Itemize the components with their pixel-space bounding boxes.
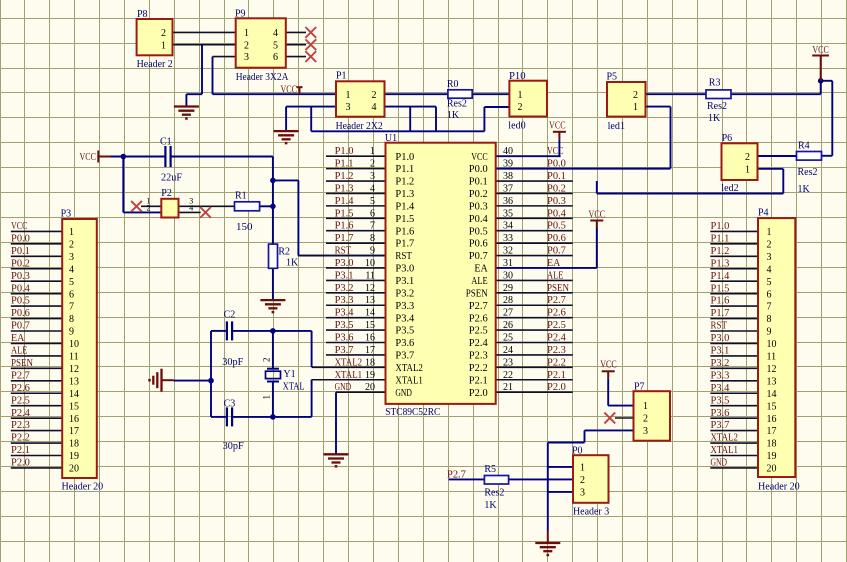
svg-text:P3.6: P3.6: [711, 408, 730, 419]
svg-text:P2.5: P2.5: [469, 326, 488, 337]
svg-text:RST: RST: [395, 251, 412, 262]
svg-text:P1.1: P1.1: [335, 159, 354, 170]
svg-text:6: 6: [69, 289, 74, 300]
svg-text:PSEN: PSEN: [11, 358, 33, 369]
svg-text:8: 8: [69, 314, 74, 325]
svg-text:P3.0: P3.0: [395, 264, 414, 275]
svg-text:P0.6: P0.6: [469, 239, 488, 250]
svg-text:P3.6: P3.6: [395, 338, 414, 349]
svg-text:1: 1: [580, 463, 585, 474]
svg-text:P0.0: P0.0: [11, 233, 30, 244]
svg-text:PSEN: PSEN: [466, 288, 488, 299]
svg-text:VCC: VCC: [281, 85, 298, 96]
svg-text:Header 20: Header 20: [758, 482, 800, 493]
svg-text:33: 33: [503, 233, 513, 244]
svg-text:P1.0: P1.0: [711, 221, 730, 232]
svg-text:22: 22: [503, 370, 513, 381]
svg-text:4: 4: [273, 28, 278, 39]
svg-text:P1.6: P1.6: [335, 221, 354, 232]
svg-text:P3.2: P3.2: [711, 358, 730, 369]
svg-text:30pF: 30pF: [223, 441, 244, 452]
svg-text:P3.5: P3.5: [711, 395, 730, 406]
svg-text:ALE: ALE: [11, 346, 28, 357]
svg-text:1: 1: [346, 90, 351, 101]
svg-text:2: 2: [161, 28, 166, 39]
svg-text:led0: led0: [508, 120, 525, 131]
svg-text:13: 13: [69, 376, 79, 387]
svg-text:37: 37: [503, 183, 513, 194]
svg-text:P2.3: P2.3: [547, 345, 566, 356]
svg-text:1K: 1K: [484, 500, 497, 511]
svg-text:20: 20: [767, 464, 777, 475]
svg-text:150: 150: [236, 222, 253, 233]
svg-text:21: 21: [503, 382, 513, 393]
svg-text:1: 1: [745, 164, 750, 175]
svg-text:P1.7: P1.7: [335, 233, 354, 244]
svg-text:6: 6: [767, 289, 772, 300]
svg-text:led1: led1: [608, 121, 625, 132]
svg-text:XTAL: XTAL: [283, 382, 305, 393]
svg-text:P3.1: P3.1: [395, 276, 414, 287]
svg-text:RST: RST: [335, 246, 352, 257]
svg-text:P3.4: P3.4: [335, 308, 354, 319]
svg-text:P0.3: P0.3: [11, 271, 30, 282]
svg-text:P3.2: P3.2: [395, 288, 414, 299]
svg-text:P3.0: P3.0: [335, 258, 354, 269]
svg-text:6: 6: [273, 52, 278, 63]
svg-text:2: 2: [372, 90, 377, 101]
svg-text:8: 8: [370, 233, 375, 244]
svg-text:P1.2: P1.2: [335, 171, 354, 182]
svg-text:P1.3: P1.3: [335, 183, 354, 194]
svg-text:5: 5: [767, 277, 772, 288]
svg-text:P0.2: P0.2: [11, 258, 30, 269]
svg-text:GND: GND: [711, 458, 728, 469]
svg-text:P9: P9: [235, 9, 246, 20]
svg-text:30: 30: [503, 270, 513, 281]
svg-text:10: 10: [767, 339, 777, 350]
svg-text:P0.4: P0.4: [11, 283, 30, 294]
svg-text:P10: P10: [509, 71, 526, 82]
svg-text:1: 1: [69, 227, 74, 238]
svg-text:16: 16: [365, 333, 375, 344]
svg-text:EA: EA: [11, 333, 25, 344]
svg-text:R2: R2: [278, 247, 290, 258]
svg-text:P3.5: P3.5: [395, 326, 414, 337]
svg-text:XTAL1: XTAL1: [711, 445, 739, 456]
svg-text:30pF: 30pF: [222, 357, 243, 368]
svg-text:18: 18: [365, 357, 375, 368]
svg-text:32: 32: [503, 246, 513, 257]
svg-text:R4: R4: [798, 141, 810, 152]
svg-text:2: 2: [518, 102, 523, 113]
svg-text:5: 5: [273, 40, 278, 51]
svg-text:XTAL2: XTAL2: [395, 363, 423, 374]
svg-text:1: 1: [633, 102, 638, 113]
svg-text:P3.1: P3.1: [335, 270, 354, 281]
svg-text:29: 29: [503, 283, 513, 294]
svg-text:18: 18: [69, 439, 79, 450]
svg-text:1: 1: [518, 90, 523, 101]
svg-text:EA: EA: [547, 258, 561, 269]
svg-text:P2.2: P2.2: [547, 357, 566, 368]
svg-text:P0.5: P0.5: [469, 226, 488, 237]
svg-text:13: 13: [767, 376, 777, 387]
svg-text:P1.7: P1.7: [395, 239, 414, 250]
svg-text:1K: 1K: [798, 184, 811, 195]
svg-text:P0.5: P0.5: [11, 296, 30, 307]
svg-text:28: 28: [503, 295, 513, 306]
svg-text:12: 12: [69, 364, 79, 375]
svg-text:5: 5: [370, 196, 375, 207]
svg-text:P1.0: P1.0: [395, 152, 414, 163]
svg-text:P0.4: P0.4: [469, 214, 488, 225]
svg-text:P3.7: P3.7: [335, 345, 354, 356]
svg-text:17: 17: [767, 426, 777, 437]
svg-text:P0.7: P0.7: [469, 251, 488, 262]
svg-text:P2.7: P2.7: [469, 301, 488, 312]
svg-text:9: 9: [69, 327, 74, 338]
svg-text:P1.5: P1.5: [335, 208, 354, 219]
svg-text:GND: GND: [335, 382, 352, 393]
svg-text:P2.4: P2.4: [469, 338, 488, 349]
svg-text:P6: P6: [722, 133, 733, 144]
svg-text:P2.6: P2.6: [547, 308, 566, 319]
svg-text:P1.4: P1.4: [711, 271, 730, 282]
svg-text:26: 26: [503, 320, 513, 331]
svg-text:35: 35: [503, 208, 513, 219]
svg-text:3: 3: [767, 252, 772, 263]
svg-text:P1.5: P1.5: [711, 283, 730, 294]
svg-text:P0.0: P0.0: [469, 164, 488, 175]
svg-text:15: 15: [365, 320, 375, 331]
svg-text:P2.0: P2.0: [547, 382, 566, 393]
svg-text:22uF: 22uF: [161, 173, 182, 184]
svg-text:2: 2: [244, 40, 249, 51]
svg-text:3: 3: [244, 52, 249, 63]
svg-text:13: 13: [365, 295, 375, 306]
svg-text:P3.3: P3.3: [711, 370, 730, 381]
svg-text:4: 4: [370, 183, 375, 194]
svg-text:U1: U1: [385, 133, 397, 144]
svg-text:3: 3: [69, 252, 74, 263]
svg-text:1: 1: [370, 146, 375, 157]
svg-text:P3.3: P3.3: [335, 295, 354, 306]
svg-text:Header 3X2A: Header 3X2A: [236, 72, 289, 83]
svg-text:P2.3: P2.3: [11, 420, 30, 431]
svg-text:2: 2: [767, 239, 772, 250]
svg-text:23: 23: [503, 357, 513, 368]
svg-text:12: 12: [767, 364, 777, 375]
svg-text:17: 17: [365, 345, 375, 356]
svg-text:P1.3: P1.3: [395, 189, 414, 200]
svg-text:1: 1: [262, 395, 272, 400]
svg-text:P3.3: P3.3: [395, 301, 414, 312]
svg-text:34: 34: [503, 221, 513, 232]
svg-text:P3: P3: [61, 209, 72, 220]
svg-text:2: 2: [745, 152, 750, 163]
svg-text:P0.7: P0.7: [11, 321, 30, 332]
svg-text:ALE: ALE: [471, 276, 488, 287]
svg-text:P2.7: P2.7: [547, 295, 566, 306]
svg-text:P3.0: P3.0: [711, 333, 730, 344]
svg-text:EA: EA: [474, 264, 488, 275]
svg-text:P1.5: P1.5: [395, 214, 414, 225]
svg-text:18: 18: [767, 439, 777, 450]
svg-text:2: 2: [643, 414, 648, 425]
svg-text:19: 19: [365, 370, 375, 381]
svg-text:GND: GND: [395, 388, 412, 399]
svg-text:6: 6: [370, 208, 375, 219]
svg-text:P2: P2: [161, 188, 172, 199]
svg-text:P2.3: P2.3: [469, 351, 488, 362]
svg-text:P1.4: P1.4: [335, 196, 354, 207]
svg-text:10: 10: [365, 258, 375, 269]
svg-text:P7: P7: [634, 382, 645, 393]
svg-text:40: 40: [503, 146, 513, 157]
svg-text:XTAL2: XTAL2: [711, 433, 739, 444]
svg-text:PSEN: PSEN: [547, 283, 569, 294]
svg-text:P2.2: P2.2: [469, 363, 488, 374]
svg-text:P2.1: P2.1: [547, 370, 566, 381]
svg-text:4: 4: [189, 204, 193, 213]
svg-text:P1.7: P1.7: [711, 308, 730, 319]
svg-text:VCC: VCC: [11, 221, 28, 232]
svg-text:P0.3: P0.3: [469, 201, 488, 212]
svg-text:P2.1: P2.1: [11, 445, 30, 456]
svg-text:Y1: Y1: [283, 369, 295, 380]
svg-text:15: 15: [767, 401, 777, 412]
svg-text:P1.1: P1.1: [711, 233, 730, 244]
svg-text:14: 14: [69, 389, 79, 400]
svg-text:3: 3: [370, 171, 375, 182]
svg-text:7: 7: [767, 302, 772, 313]
svg-text:P0.2: P0.2: [547, 183, 566, 194]
svg-text:2: 2: [262, 358, 272, 363]
svg-text:4: 4: [767, 264, 772, 275]
svg-text:P3.5: P3.5: [335, 320, 354, 331]
svg-text:P4: P4: [758, 208, 769, 219]
svg-text:P2.0: P2.0: [469, 388, 488, 399]
svg-text:R1: R1: [235, 191, 247, 202]
svg-text:XTAL2: XTAL2: [335, 357, 363, 368]
svg-text:Res2: Res2: [484, 488, 504, 499]
svg-text:P3.4: P3.4: [711, 383, 730, 394]
svg-text:11: 11: [69, 352, 79, 363]
svg-text:P0.2: P0.2: [469, 189, 488, 200]
svg-text:P0.6: P0.6: [547, 233, 566, 244]
svg-text:9: 9: [370, 246, 375, 257]
svg-text:39: 39: [503, 159, 513, 170]
svg-text:P2.1: P2.1: [469, 375, 488, 386]
svg-text:7: 7: [370, 221, 375, 232]
svg-text:P1.2: P1.2: [711, 246, 730, 257]
svg-text:24: 24: [503, 345, 513, 356]
svg-text:P2.5: P2.5: [547, 320, 566, 331]
svg-text:9: 9: [767, 327, 772, 338]
svg-text:25: 25: [503, 333, 513, 344]
svg-text:38: 38: [503, 171, 513, 182]
svg-text:VCC: VCC: [589, 210, 606, 221]
svg-text:P1.4: P1.4: [395, 201, 414, 212]
svg-text:16: 16: [767, 414, 777, 425]
svg-text:P0: P0: [572, 445, 583, 456]
svg-text:R3: R3: [709, 78, 721, 89]
svg-text:2: 2: [147, 204, 151, 213]
svg-text:12: 12: [365, 283, 375, 294]
svg-text:led2: led2: [721, 183, 738, 194]
svg-text:15: 15: [69, 401, 79, 412]
svg-text:Res2: Res2: [447, 98, 467, 109]
svg-text:P1.2: P1.2: [395, 177, 414, 188]
svg-text:11: 11: [365, 270, 375, 281]
svg-text:4: 4: [69, 264, 74, 275]
svg-text:C3: C3: [224, 399, 236, 410]
svg-text:17: 17: [69, 426, 79, 437]
svg-text:3: 3: [346, 102, 351, 113]
svg-text:3: 3: [643, 426, 648, 437]
svg-text:P1.3: P1.3: [711, 258, 730, 269]
svg-text:11: 11: [767, 352, 777, 363]
svg-text:P2.0: P2.0: [11, 458, 30, 469]
svg-text:STC89C52RC: STC89C52RC: [385, 407, 440, 418]
svg-text:P2.5: P2.5: [11, 395, 30, 406]
svg-text:Header 20: Header 20: [62, 482, 104, 493]
svg-text:ALE: ALE: [547, 270, 564, 281]
svg-text:3: 3: [580, 488, 585, 499]
svg-text:P1: P1: [336, 71, 347, 82]
svg-text:Header 2X2: Header 2X2: [336, 121, 383, 132]
svg-text:VCC: VCC: [812, 45, 829, 56]
svg-text:P1.0: P1.0: [335, 146, 354, 157]
svg-text:XTAL1: XTAL1: [395, 375, 423, 386]
svg-text:P2.2: P2.2: [11, 433, 30, 444]
svg-text:P3.6: P3.6: [335, 333, 354, 344]
svg-text:1: 1: [767, 227, 772, 238]
svg-text:P2.4: P2.4: [547, 333, 566, 344]
svg-text:P3.2: P3.2: [335, 283, 354, 294]
svg-text:20: 20: [69, 464, 79, 475]
svg-text:P1.6: P1.6: [711, 296, 730, 307]
svg-text:36: 36: [503, 196, 513, 207]
svg-text:P0.1: P0.1: [547, 171, 566, 182]
svg-text:P0.1: P0.1: [11, 246, 30, 257]
svg-text:P2.4: P2.4: [11, 408, 30, 419]
svg-text:R0: R0: [447, 79, 459, 90]
svg-text:P0.4: P0.4: [547, 208, 566, 219]
svg-text:P0.3: P0.3: [547, 196, 566, 207]
svg-text:1: 1: [161, 40, 166, 51]
svg-text:1K: 1K: [708, 113, 721, 124]
svg-text:P0.0: P0.0: [547, 159, 566, 170]
svg-text:P1.1: P1.1: [395, 164, 414, 175]
svg-text:VCC: VCC: [600, 360, 617, 371]
svg-text:P3.4: P3.4: [395, 313, 414, 324]
svg-text:Res2: Res2: [707, 101, 727, 112]
svg-text:C1: C1: [160, 137, 172, 148]
svg-text:P3.1: P3.1: [711, 346, 730, 357]
svg-text:4: 4: [372, 102, 377, 113]
svg-text:20: 20: [365, 382, 375, 393]
svg-text:P8: P8: [137, 9, 148, 20]
svg-text:1: 1: [244, 28, 249, 39]
svg-text:14: 14: [767, 389, 777, 400]
svg-text:P2.7: P2.7: [11, 370, 30, 381]
svg-text:XTAL1: XTAL1: [335, 370, 363, 381]
svg-text:P1.6: P1.6: [395, 226, 414, 237]
svg-text:RST: RST: [711, 321, 728, 332]
svg-text:P3.7: P3.7: [711, 420, 730, 431]
svg-text:14: 14: [365, 308, 375, 319]
svg-text:VCC: VCC: [471, 152, 488, 163]
svg-text:Res2: Res2: [798, 167, 818, 178]
svg-text:19: 19: [767, 451, 777, 462]
svg-text:1K: 1K: [286, 257, 299, 268]
svg-text:Header 2: Header 2: [137, 59, 173, 70]
svg-text:P0.1: P0.1: [469, 177, 488, 188]
svg-text:2: 2: [580, 475, 585, 486]
svg-text:2: 2: [633, 90, 638, 101]
svg-text:7: 7: [69, 302, 74, 313]
svg-text:C2: C2: [224, 310, 236, 321]
svg-text:2: 2: [370, 159, 375, 170]
svg-text:8: 8: [767, 314, 772, 325]
svg-text:5: 5: [69, 277, 74, 288]
svg-text:P0.7: P0.7: [547, 246, 566, 257]
svg-text:2: 2: [69, 239, 74, 250]
svg-text:P5: P5: [607, 72, 618, 83]
svg-text:VCC: VCC: [80, 152, 97, 163]
svg-text:P2.6: P2.6: [11, 383, 30, 394]
svg-text:31: 31: [503, 258, 513, 269]
svg-text:P0.6: P0.6: [11, 308, 30, 319]
svg-text:R5: R5: [484, 464, 496, 475]
svg-text:16: 16: [69, 414, 79, 425]
svg-text:Header 3: Header 3: [573, 507, 609, 518]
svg-text:P0.5: P0.5: [547, 221, 566, 232]
svg-text:19: 19: [69, 451, 79, 462]
svg-text:VCC: VCC: [549, 120, 566, 131]
svg-text:1: 1: [643, 401, 648, 412]
svg-text:P2.6: P2.6: [469, 313, 488, 324]
svg-text:1K: 1K: [447, 110, 460, 121]
svg-text:27: 27: [503, 308, 513, 319]
svg-text:P3.7: P3.7: [395, 351, 414, 362]
svg-text:10: 10: [69, 339, 79, 350]
svg-text:VCC: VCC: [547, 146, 564, 157]
